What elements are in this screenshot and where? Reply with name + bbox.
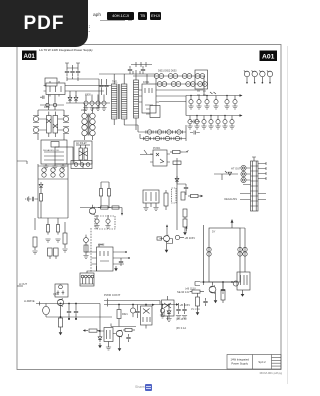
title block frame	[227, 355, 281, 370]
resistor R632	[173, 161, 181, 164]
svg-text:DY: DY	[212, 231, 216, 234]
choke L601 winding A	[82, 113, 87, 136]
diode row D652	[157, 82, 207, 87]
capacitor C633	[182, 303, 187, 319]
dashed feedback line	[90, 228, 92, 272]
arrow label left	[98, 330, 101, 332]
end tick left	[39, 302, 41, 306]
wire opto line	[140, 150, 153, 155]
coil left	[207, 247, 211, 256]
wire upper rail	[108, 301, 160, 305]
svg-text:R621: R621	[122, 313, 128, 316]
standby box IC631	[162, 296, 175, 320]
wire ic right arrows	[117, 252, 129, 264]
ground arrow Q622	[118, 346, 122, 351]
connector J601	[195, 70, 208, 95]
capacitor C613	[141, 66, 145, 74]
capacitor C652	[203, 298, 207, 306]
diode D603	[63, 116, 69, 123]
lamp V4	[267, 71, 273, 84]
svg-text:JS 1 CA: JS 1 CA	[191, 308, 200, 311]
capacitor C617	[105, 215, 110, 229]
svg-text:H OUT: H OUT	[19, 282, 27, 286]
relay contact box	[71, 161, 92, 169]
error amp box	[101, 328, 114, 342]
capacitor C811	[104, 82, 108, 90]
capacitor C802	[70, 68, 74, 76]
wire c631	[177, 184, 186, 195]
resistor R652	[196, 293, 200, 310]
ground D621	[166, 319, 171, 322]
IC601 STR regulator	[139, 84, 159, 113]
title divider 2	[271, 355, 273, 370]
resistor R621	[117, 305, 121, 327]
ground G1	[45, 239, 50, 242]
regulator IC621	[141, 305, 153, 329]
capacitor C810	[99, 82, 103, 90]
diode D612	[98, 331, 102, 343]
svg-text:Power Supply: Power Supply	[231, 362, 248, 366]
wire edge tick b	[17, 285, 23, 287]
diode D604	[63, 127, 69, 134]
capacitor C602	[74, 304, 78, 320]
wire z-line	[40, 95, 64, 111]
diode D802	[74, 95, 78, 103]
resistor R617	[112, 206, 119, 209]
node dots run	[60, 303, 77, 318]
base resistor R641	[157, 237, 162, 240]
wire ic left	[86, 245, 92, 252]
diode D601	[33, 116, 39, 123]
capacitor C612	[128, 66, 132, 74]
wire errbox down	[108, 342, 110, 348]
wire feed left of yoke	[203, 225, 205, 285]
capacitor CE06	[232, 96, 237, 110]
wire drop	[166, 225, 168, 235]
ground G4	[62, 249, 67, 252]
resistor R634	[181, 192, 185, 200]
wire bottom links	[203, 282, 223, 286]
coil right B	[243, 247, 247, 256]
title rows right cell	[272, 357, 282, 366]
ground arrow R601	[59, 330, 63, 335]
svg-text:T601: T601	[112, 81, 118, 84]
ground IC651	[241, 290, 245, 297]
svg-text:+B 115V: +B 115V	[185, 236, 196, 240]
transformer T601 core	[118, 84, 120, 119]
svg-text:AC INLET: AC INLET	[76, 142, 87, 145]
arrow left R602	[83, 329, 86, 331]
wire bridge cross	[39, 119, 64, 130]
svg-text:PWR CONT: PWR CONT	[104, 293, 120, 297]
transistor Q622	[113, 330, 123, 337]
capacitor CE07	[187, 116, 192, 130]
ground G5	[83, 256, 88, 259]
wire to right	[183, 151, 189, 153]
resistor R636	[183, 209, 187, 217]
wire chain1 bus	[133, 75, 204, 77]
transistor Q601	[57, 299, 63, 307]
lamp V2	[252, 71, 258, 84]
arrow A1	[121, 213, 123, 216]
footer blue icon	[145, 384, 152, 391]
arrow up	[166, 224, 168, 227]
wire mid joint	[64, 222, 66, 230]
node dot N2	[128, 257, 130, 259]
node dots rail	[118, 304, 170, 306]
ground G3	[32, 251, 37, 254]
capacitor CE02	[196, 96, 201, 110]
svg-text:PC601: PC601	[153, 147, 161, 150]
arrow right	[201, 195, 204, 197]
resistor R651	[190, 290, 204, 293]
wire chain drop	[156, 76, 204, 96]
transformer T801 windings	[47, 112, 58, 138]
transformer T601 aux winding	[134, 74, 139, 123]
wire node	[186, 229, 188, 232]
wire run	[80, 208, 122, 214]
capacitor C623	[126, 334, 130, 342]
wire lower run	[46, 316, 112, 318]
outer filter rect	[45, 78, 57, 86]
thermistor TH601	[172, 188, 177, 203]
node dots standby	[203, 281, 224, 283]
wire +B rail	[108, 304, 176, 306]
degauss box	[41, 140, 67, 164]
wire feed	[214, 171, 238, 180]
resistor R613	[56, 222, 59, 235]
svg-text:A01: A01	[24, 53, 36, 60]
resistor R653	[221, 282, 225, 303]
svg-text:D651 D652 D653: D651 D652 D653	[158, 70, 177, 73]
transistor Q653	[209, 286, 216, 294]
diode D611	[39, 182, 43, 190]
ground errbox	[106, 347, 111, 350]
end tick	[104, 299, 108, 307]
capacitor C632	[176, 303, 181, 319]
IC U801 line filter box	[44, 81, 68, 97]
header mark	[89, 25, 91, 34]
header chip 1	[107, 12, 134, 20]
capacitor C631	[184, 184, 188, 192]
LED D642	[175, 235, 184, 239]
wire emitter	[166, 242, 168, 248]
ground relay	[143, 208, 148, 211]
svg-text:Q601: Q601	[53, 293, 60, 296]
ground arrow	[183, 230, 187, 235]
wire str to chains	[124, 90, 203, 130]
resistor R614	[33, 237, 37, 250]
header small text	[93, 13, 101, 18]
svg-text:L601: L601	[81, 109, 87, 112]
capacitor CE11	[215, 116, 220, 130]
wire loop link	[45, 304, 47, 318]
svg-text:14W Integrated: 14W Integrated	[231, 358, 250, 362]
capacitor C808	[101, 97, 106, 111]
wire IC right to transformer	[68, 86, 112, 98]
resistor R637	[183, 217, 187, 230]
wire string links	[35, 190, 58, 231]
svg-text:IC601: IC601	[143, 81, 150, 84]
diode row D651	[154, 74, 205, 79]
control box IC651	[237, 272, 250, 290]
diode pair DA1	[42, 168, 46, 177]
wire rail box	[38, 164, 68, 218]
capacitor C803	[76, 68, 80, 76]
svg-text:HT OUT: HT OUT	[231, 167, 241, 171]
LED DL1	[84, 238, 89, 245]
capacitor CE10	[208, 116, 213, 130]
wire chain4 bus	[140, 138, 186, 140]
sheet label A01 left	[22, 51, 37, 61]
svg-text:SE-90 14V: SE-90 14V	[177, 290, 190, 294]
capacitor CE05	[224, 96, 229, 110]
capacitor C804 side	[40, 96, 44, 99]
svg-text:D601: D601	[44, 106, 50, 109]
plug circle P1	[241, 165, 246, 170]
wire pins left lower	[240, 168, 266, 200]
capacitor C807	[95, 97, 100, 111]
inductor loop	[43, 306, 50, 314]
sheet label A01 right	[260, 51, 278, 62]
capacitor C622	[160, 305, 165, 319]
resistor R620	[84, 245, 88, 255]
ground Q653	[214, 298, 218, 303]
wire top feed	[99, 70, 156, 84]
transformer box T802	[74, 141, 92, 164]
resistor R602	[85, 329, 100, 332]
resistor R618	[99, 186, 102, 199]
snubber box	[146, 106, 160, 118]
header link underline	[100, 20, 125, 21]
resistor R619	[107, 186, 110, 199]
svg-text:H-DRIVE: H-DRIVE	[24, 299, 35, 303]
wire choke leads	[85, 79, 100, 140]
capacitor pair CP1	[190, 120, 200, 124]
capacitor pair CP2	[190, 131, 200, 135]
transistor Q611	[89, 205, 95, 215]
plug circle P2	[241, 171, 246, 176]
relay RL601	[143, 190, 159, 207]
transformer T601 primary winding	[112, 78, 117, 125]
transistor Q621	[130, 305, 135, 318]
wire q653 e	[215, 292, 217, 298]
ground R652	[196, 310, 200, 315]
diode pair DA2	[51, 168, 55, 177]
arrow bus V2 end	[240, 114, 243, 117]
wire aux top run	[131, 62, 152, 67]
node dot yoke	[231, 281, 233, 283]
diode D631	[175, 176, 179, 184]
wire vertical drop	[176, 158, 178, 230]
title divider 1	[252, 355, 254, 370]
wire bus V2	[186, 115, 240, 117]
capacitor CE13	[229, 116, 234, 130]
fuse holder pair	[48, 248, 59, 259]
diode D621	[167, 305, 171, 319]
wire drops	[101, 182, 109, 208]
yoke frame	[209, 228, 240, 282]
capacitor CE08	[194, 116, 199, 130]
choke L601 winding B	[90, 113, 95, 136]
stub arrow top	[231, 220, 233, 228]
resistor R633	[164, 190, 168, 210]
wire chain3 drop	[138, 125, 186, 141]
resistor R615	[63, 230, 67, 248]
diode pair DA3	[60, 168, 64, 177]
diode D641	[228, 172, 232, 175]
varistor Z801	[46, 103, 57, 106]
resistor R611	[39, 191, 42, 204]
schematic frame	[17, 45, 281, 370]
capacitor CE09	[201, 116, 206, 130]
resistor R631	[170, 150, 183, 153]
diode row D654	[143, 136, 181, 140]
footer share text	[135, 385, 146, 389]
capacitor CE01	[188, 96, 193, 110]
wire bus V1	[186, 92, 240, 96]
wire right drop	[99, 304, 101, 331]
capacitor C601	[67, 304, 71, 320]
bottom right filename	[260, 371, 282, 375]
arrow +B	[176, 303, 179, 305]
PDF badge	[0, 0, 88, 47]
wire box links	[46, 164, 83, 168]
capacitor CE03	[204, 96, 209, 110]
choke core	[88, 114, 89, 136]
wire chain3 bus	[138, 131, 186, 133]
diode D602	[33, 127, 39, 134]
ground G2	[55, 239, 60, 242]
capacitor CE12	[222, 116, 227, 130]
resistor R622	[123, 328, 135, 331]
pin header strip	[251, 161, 259, 211]
arrow label feed	[152, 304, 155, 306]
wire cap stubs	[102, 79, 107, 95]
resistor R612	[46, 222, 49, 235]
yoke right wire	[240, 228, 245, 272]
power arrow node	[186, 226, 188, 229]
ground R602	[98, 343, 102, 348]
ground arrow q641	[165, 248, 169, 253]
paper right edge	[287, 46, 289, 384]
wire collector link	[167, 239, 173, 244]
IC602 box	[92, 245, 118, 272]
wire main run	[36, 303, 100, 305]
header chip 2	[138, 12, 147, 20]
resistor R601	[58, 306, 62, 330]
wire conn feed	[87, 266, 97, 273]
svg-text:DEGAUSS: DEGAUSS	[224, 197, 237, 201]
svg-text:C805: C805	[85, 94, 91, 97]
wire top rail right	[200, 282, 237, 285]
resistor R635	[188, 194, 201, 197]
ground relay2	[153, 208, 158, 211]
ground pins	[43, 166, 48, 169]
svg-text:+B 115V: +B 115V	[180, 303, 191, 307]
lamp V3	[259, 71, 265, 84]
wire lower bus	[66, 102, 110, 104]
capacitor C651	[221, 286, 225, 294]
svg-text:Sprt 2: Sprt 2	[258, 360, 266, 364]
drive box	[55, 284, 68, 297]
svg-text:IC602: IC602	[98, 244, 105, 247]
arrow bus V1 end	[240, 94, 243, 97]
capacitor C618	[119, 258, 123, 266]
capacitor C611 side	[26, 196, 38, 201]
wire top caps bus	[65, 63, 99, 81]
capacitor CE04	[213, 96, 218, 110]
transistor Q654	[233, 281, 238, 286]
node dots buses	[190, 95, 228, 117]
resistor R616	[98, 206, 111, 209]
lamp V1	[244, 71, 250, 84]
wire led top	[85, 235, 87, 238]
diode D801	[68, 95, 72, 103]
optocoupler PC601	[150, 150, 170, 166]
ground ic	[114, 266, 118, 271]
wire top pin	[252, 157, 256, 161]
wire pins right	[258, 162, 266, 180]
node dot N1	[125, 251, 127, 253]
wire sub rail	[111, 324, 136, 327]
capacitor C616	[94, 215, 99, 229]
wire rails	[38, 110, 64, 140]
wire caps top ties	[86, 95, 104, 98]
wire chain2 bus	[156, 83, 206, 85]
header chip 3	[150, 12, 161, 20]
capacitor C806	[89, 97, 94, 111]
transistor Q641	[160, 235, 170, 242]
svg-text:(9V 0.1A: (9V 0.1A	[176, 326, 186, 330]
svg-text:LA 76 W 14W Integrated Power: LA 76 W 14W Integrated Power Supply	[39, 48, 93, 52]
stub box left	[195, 282, 200, 286]
posistor box	[55, 147, 73, 164]
wire frame stub a	[17, 161, 27, 164]
plug circle P3	[241, 177, 246, 182]
connector P601	[80, 273, 94, 286]
capacitor row C805	[83, 97, 88, 111]
coil right A	[238, 247, 242, 256]
capacitor C801	[65, 68, 69, 76]
wire q622 down	[119, 337, 121, 346]
capacitor C621	[135, 305, 139, 319]
svg-text:(40.16 W: (40.16 W	[176, 317, 187, 321]
transformer T601 secondary winding	[122, 78, 127, 125]
small box BX1	[95, 216, 115, 229]
svg-text:A01: A01	[262, 54, 275, 61]
diode row D653	[146, 130, 183, 134]
svg-text:DEGAUSS COIL: DEGAUSS COIL	[43, 149, 60, 152]
